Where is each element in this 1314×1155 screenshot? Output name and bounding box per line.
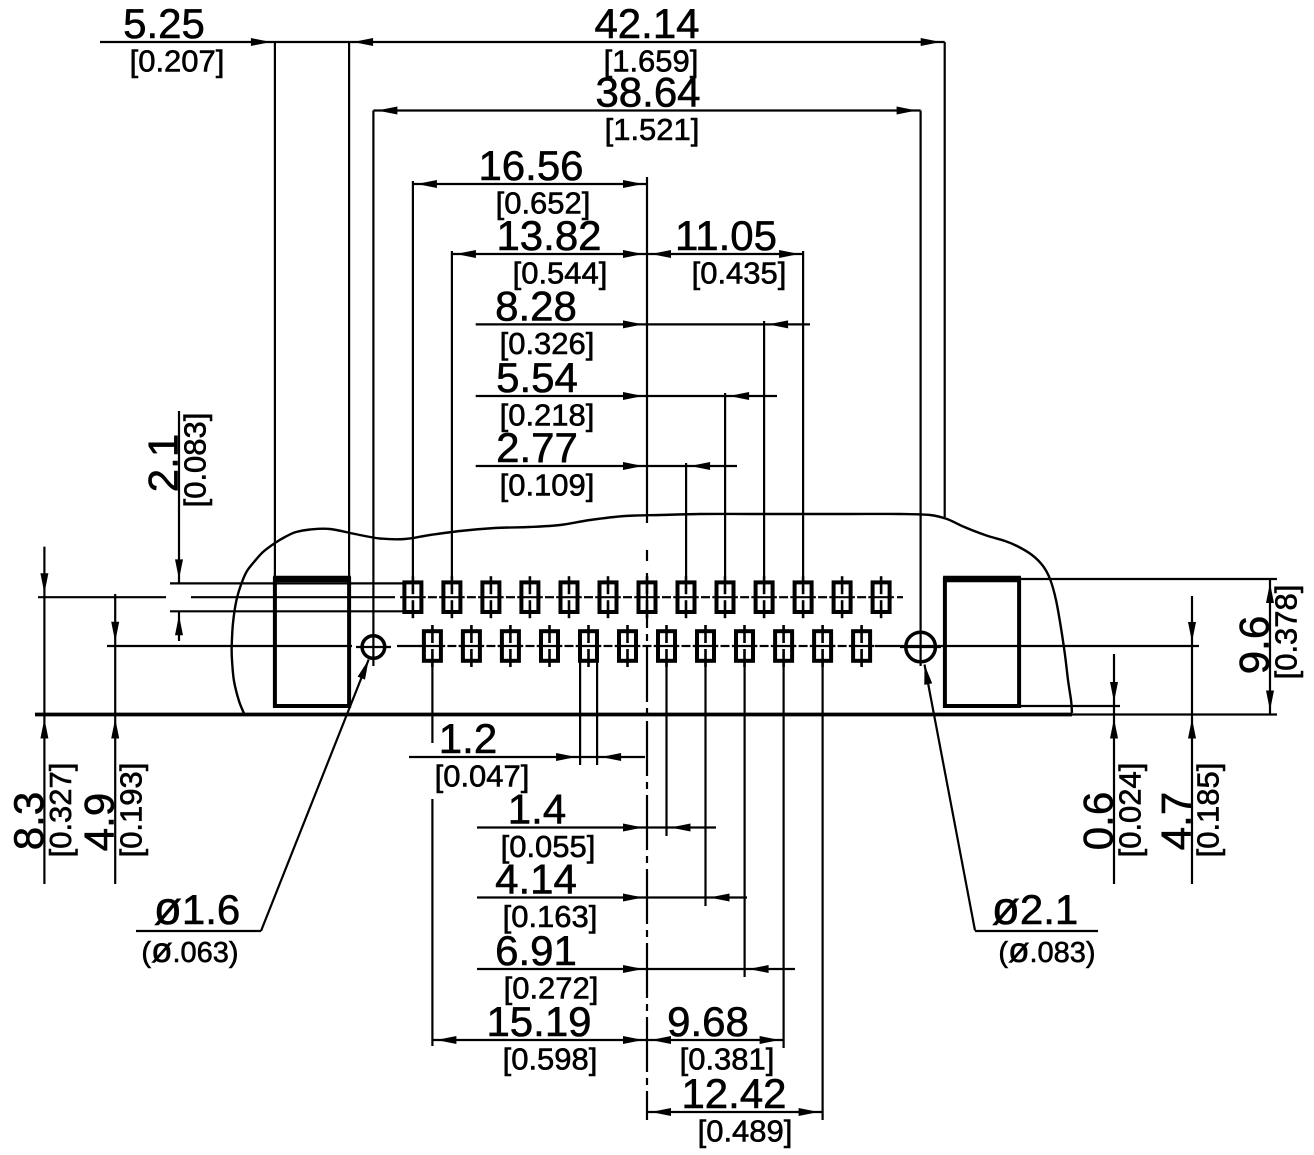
leader ø1.6 (136, 660, 369, 971)
dimension 9.6 [0.378] (1231, 579, 1304, 715)
svg-text:[0.435]: [0.435] (692, 256, 787, 291)
dimension 4.14 [0.163] (477, 856, 747, 935)
extension line right hole center (919, 111, 921, 667)
pad upper row 6 (600, 576, 617, 618)
extension line upper pad +3 (763, 321, 765, 577)
dimension 8.3 [0.327] (5, 547, 78, 884)
pad lower row 11 (814, 625, 831, 667)
extension line rect bottom right (1021, 705, 1120, 707)
extension line left hole center (372, 111, 374, 667)
extension line lower pad +0.5 (665, 661, 667, 836)
svg-text:[0.083]: [0.083] (178, 413, 213, 508)
svg-text:42.14: 42.14 (594, 0, 699, 47)
pad lower row 7 (658, 625, 675, 667)
svg-text:(ø.083): (ø.083) (998, 931, 1095, 970)
svg-text:5.25: 5.25 (123, 0, 205, 47)
extension line mounting pad right inner edge (944, 42, 946, 517)
svg-text:5.54: 5.54 (496, 354, 578, 401)
dimension 6.91 [0.272] (477, 927, 795, 1006)
pad lower row 5 (580, 625, 597, 667)
hole right ø2.1 (900, 632, 941, 662)
pad upper row 13 (873, 576, 890, 618)
extension line upper pad +1 (685, 463, 687, 577)
svg-text:[0.598]: [0.598] (503, 1042, 598, 1077)
pad lower row 9 (736, 625, 753, 667)
svg-text:6.91: 6.91 (495, 927, 577, 974)
svg-text:ø1.6: ø1.6 (154, 882, 241, 934)
pad upper row 9 (717, 576, 734, 618)
svg-text:15.19: 15.19 (486, 998, 591, 1045)
dimension 16.56 [0.652] (413, 142, 647, 221)
pad upper row 12 (834, 576, 851, 618)
dimension 1.4 [0.055] (477, 786, 716, 865)
dimension 12.42 [0.489] (647, 1070, 823, 1149)
extension line lower pad -5.5 (431, 661, 433, 1046)
dimension 11.05 [0.435] (647, 212, 803, 291)
pad lower row 6 (619, 625, 636, 667)
leader ø2.1 (924, 665, 1098, 971)
pad lower row 4 (541, 625, 558, 667)
extension line lower pad right edge (596, 661, 598, 765)
pad upper row 2 (443, 576, 460, 618)
pad upper row 11 (795, 576, 812, 618)
dimension 2.1 [0.083] (140, 411, 213, 641)
pad upper row 10 (756, 576, 773, 618)
dimension 42.14 [1.659] (349, 0, 945, 79)
pad upper row 4 (521, 576, 538, 618)
svg-text:ø2.1: ø2.1 (992, 882, 1079, 934)
svg-text:1.2: 1.2 (439, 715, 497, 762)
upper row centerline (38, 596, 903, 598)
svg-text:9.68: 9.68 (667, 998, 749, 1045)
pad upper row 8 (678, 576, 695, 618)
svg-text:1.4: 1.4 (508, 786, 566, 833)
dimension 13.82 [0.544] (452, 212, 647, 291)
svg-text:[0.109]: [0.109] (500, 468, 595, 503)
svg-text:[0.193]: [0.193] (114, 763, 149, 858)
pad upper row 3 (482, 576, 499, 618)
pad upper row 5 (561, 576, 578, 618)
dimension 0.6 [0.024] (1075, 654, 1148, 884)
svg-text:[0.207]: [0.207] (130, 44, 225, 79)
extension line mounting pad left edge (274, 42, 276, 579)
svg-text:(ø.063): (ø.063) (141, 931, 238, 970)
svg-text:[0.024]: [0.024] (1113, 763, 1148, 858)
dimension 1.2 [0.047] (409, 715, 645, 794)
dimension 38.64 [1.521] (373, 69, 920, 148)
extension line lower pad +1.5 (704, 661, 706, 906)
dimension 4.7 [0.185] (1153, 596, 1226, 884)
svg-text:16.56: 16.56 (478, 142, 583, 189)
dimension 5.54 [0.218] (476, 354, 777, 433)
extension line upper pad -6 (412, 181, 414, 577)
svg-text:38.64: 38.64 (595, 69, 700, 116)
extension line lower pad left edge (579, 661, 581, 765)
svg-text:[0.327]: [0.327] (43, 763, 78, 858)
svg-text:4.14: 4.14 (495, 856, 577, 903)
svg-text:2.77: 2.77 (496, 424, 578, 471)
extension line upper pad +2 (724, 393, 726, 577)
extension line upper pad bottom (170, 610, 404, 612)
svg-text:[1.521]: [1.521] (605, 112, 700, 147)
extension line centerline upper (646, 177, 648, 523)
component body outline (break line) (232, 514, 1072, 714)
dimension 4.9 [0.193] (76, 594, 149, 884)
vertical centerline (646, 550, 648, 1120)
hole left ø1.6 (356, 636, 391, 659)
lower row centerline (107, 645, 1199, 647)
extension line mounting pad left inner edge (348, 42, 350, 579)
svg-text:[0.489]: [0.489] (698, 1114, 793, 1149)
extension line upper pad +4 (802, 251, 804, 577)
pad lower row 8 (697, 625, 714, 667)
extension line lower pad +4.5 (821, 661, 823, 1120)
svg-text:12.42: 12.42 (681, 1070, 786, 1117)
pad lower row 3 (502, 625, 519, 667)
pad lower row 1 (424, 625, 441, 667)
mounting pad right (943, 579, 1021, 706)
extension line lower pad +2.5 (743, 661, 745, 977)
extension line rect top right (1021, 578, 1277, 580)
board bottom edge thin extension (1072, 713, 1277, 715)
dimension 9.68 [0.381] (647, 998, 784, 1077)
dimension 5.25 [0.207] (100, 0, 349, 79)
svg-text:13.82: 13.82 (496, 212, 601, 259)
extension line lower pad +3.5 (782, 661, 784, 1048)
extension line upper pad -5 (451, 251, 453, 577)
dimension 2.77 [0.109] (476, 424, 737, 503)
pad upper row 7 (639, 576, 656, 618)
svg-text:11.05: 11.05 (675, 212, 777, 259)
board bottom edge thick (35, 713, 1072, 717)
mounting pad left (273, 579, 351, 706)
dimension 15.19 [0.598] (432, 998, 647, 1077)
svg-text:[0.185]: [0.185] (1191, 763, 1226, 858)
pad lower row 2 (463, 625, 480, 667)
pad upper row 1 (404, 576, 421, 618)
dimension 8.28 [0.326] (476, 282, 810, 361)
extension line upper pad top (170, 582, 404, 584)
svg-text:8.28: 8.28 (495, 282, 577, 329)
pad lower row 12 (853, 625, 870, 667)
svg-text:[0.378]: [0.378] (1269, 585, 1304, 680)
pad lower row 10 (775, 625, 792, 667)
